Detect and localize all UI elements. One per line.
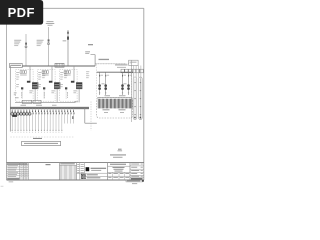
svg-text:PDF: PDF	[8, 5, 35, 20]
